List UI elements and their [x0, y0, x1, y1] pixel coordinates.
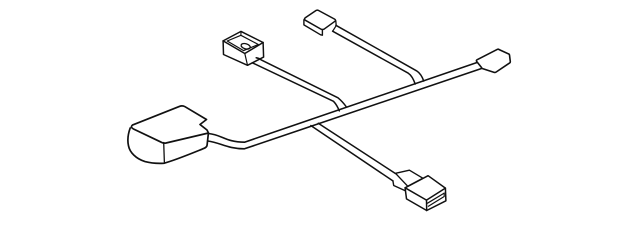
ring terminal body: [223, 41, 264, 65]
right flat connector: [476, 49, 510, 72]
wire branch B to lower connector, left line: [311, 126, 393, 181]
module (control unit) top face: [131, 106, 208, 143]
wire branch C lower line: [333, 31, 416, 84]
ring terminal box top face: [223, 31, 263, 53]
top connector wire cap: [333, 26, 336, 31]
lower connector socket side line: [443, 193, 445, 196]
lower connector boot step: [393, 181, 405, 191]
ring terminal hole: [240, 43, 250, 50]
lower connector box left face: [405, 188, 427, 211]
ring terminal inner rim: [227, 35, 258, 50]
lower connector socket inner line 1: [428, 193, 445, 203]
wire branch B right line: [318, 123, 395, 173]
top connector top face: [304, 10, 335, 29]
top connector corner post: [335, 21, 337, 26]
wire branch A lower line: [252, 63, 339, 111]
module front crease: [163, 143, 166, 164]
wire trunk lower line with S-curve from module: [208, 69, 482, 149]
lower connector boot: [396, 170, 423, 186]
lower connector socket inner line 2: [428, 197, 444, 207]
wire branch C from top connector, upper line: [336, 25, 424, 81]
wire branch A to ring terminal, upper line: [256, 58, 346, 107]
module body outline: [128, 128, 208, 163]
top connector body: [304, 20, 323, 35]
wire trunk upper line with S-curve from module: [209, 63, 478, 143]
ring terminal rim crease: [240, 32, 242, 36]
lower connector box top face: [405, 176, 445, 200]
ring terminal front crease: [245, 54, 248, 66]
lower connector box right face: [427, 188, 446, 210]
